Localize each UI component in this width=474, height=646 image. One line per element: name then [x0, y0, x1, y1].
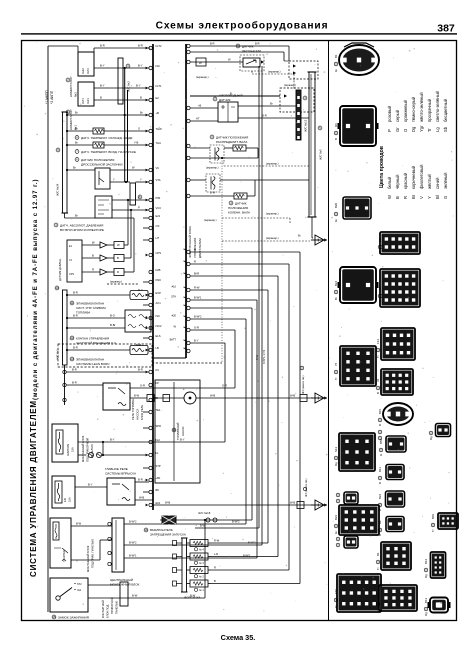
svg-text:EVP: EVP [156, 291, 162, 295]
lean burn solenoid dashed box [58, 344, 152, 367]
svg-text:№ 3: № 3 [199, 562, 204, 565]
svg-text:B-R: B-R [73, 346, 78, 350]
svg-text:Ж/С №13: Ж/С №13 [304, 119, 308, 132]
camshaft position sensor label [210, 135, 214, 139]
svg-text:B2: B2 [378, 238, 382, 242]
lean burn label [70, 357, 74, 361]
ECU V2 left pin circles [186, 44, 190, 197]
svg-text:O: O [403, 128, 408, 132]
svg-text:B1: B1 [334, 54, 338, 58]
crankshaft sensor pickup coil [206, 174, 220, 192]
connector B B22 small [386, 491, 405, 507]
svg-text:синий: синий [435, 177, 440, 189]
svg-text:B-R: B-R [100, 44, 105, 48]
svg-text:W-B: W-B [290, 501, 295, 505]
svg-text:ДАТЧИК: ДАТЧИК [242, 45, 254, 49]
wire Bl-R relay to pump connector [130, 397, 147, 399]
svg-text:EFI: EFI [63, 498, 67, 502]
svg-text:ДАТЧИК ПОЛОЖЕНИЯ: ДАТЧИК ПОЛОЖЕНИЯ [81, 158, 114, 162]
wire from bar to MAP [64, 213, 66, 218]
svg-text:STP: STP [156, 464, 161, 468]
svg-text:МОНТАЖНЫЙ БЛОК: МОНТАЖНЫЙ БЛОК [81, 435, 85, 462]
svg-text:ТОПЛИВНЫЙ: ТОПЛИВНЫЙ [176, 423, 180, 440]
svg-text:B13: B13 [424, 597, 428, 603]
svg-text:Dg: Dg [424, 612, 428, 616]
J/C No5 label [318, 126, 322, 130]
connector Tr B01 [438, 513, 458, 529]
svg-text:Gr: Gr [334, 605, 338, 608]
svg-text:CPS: CPS [156, 251, 162, 255]
junction connector J/C No5 [309, 72, 315, 217]
ECU connector bus V2 [185, 44, 187, 358]
camshaft sensor pickup coil [210, 145, 224, 163]
svg-text:Tr: Tr [431, 529, 435, 532]
svg-text:КОНТАКТНЫЙ: КОНТАКТНЫЙ [101, 600, 105, 618]
ignition lock label [52, 615, 56, 619]
wire G-R from relay up to ECU column [130, 387, 235, 389]
staircase wire B [190, 251, 300, 253]
connector Tr F48 [379, 585, 417, 611]
connector Dg D23 [436, 424, 451, 437]
connector B B11 [386, 465, 404, 480]
svg-text:№ 2: № 2 [199, 575, 204, 578]
crankshaft sensor label [229, 201, 233, 205]
svg-text:Dg: Dg [334, 462, 338, 466]
svg-text:BK: BK [156, 488, 160, 492]
ECU V1 pin circles [149, 46, 153, 506]
svg-text:B-Y: B-Y [180, 438, 185, 442]
svg-text:Bl-R: Bl-R [194, 272, 199, 276]
svg-text:ТОПЛИВА: ТОПЛИВА [76, 311, 90, 315]
svg-text:E1: E1 [69, 245, 73, 248]
svg-text:B-W: B-W [210, 191, 216, 195]
svg-text:W: W [228, 58, 231, 62]
svg-text:(экранир.): (экранир.) [196, 75, 209, 79]
svg-text:Tr: Tr [378, 251, 382, 254]
svg-text:B-W: B-W [256, 355, 259, 361]
svg-text:B: B [376, 392, 380, 394]
pressure sensor wires with diodes [82, 241, 134, 276]
svg-text:(экранир.): (экранир.) [268, 70, 281, 74]
svg-text:BATT: BATT [170, 338, 177, 342]
connector B B2x [386, 517, 404, 532]
svg-text:РАСПРЕДЕЛИТ. ВАЛА: РАСПРЕДЕЛИТ. ВАЛА [216, 140, 247, 144]
svg-text:IGT2: IGT2 [86, 68, 90, 74]
svg-text:белый: белый [387, 176, 392, 189]
svg-text:387: 387 [437, 23, 455, 35]
svg-text:E2: E2 [156, 96, 160, 100]
svg-text:G: G [379, 453, 383, 456]
svg-text:Lg: Lg [435, 127, 440, 132]
shield dashed separator [152, 362, 222, 364]
connector Dg B12 [431, 552, 446, 578]
wire arrowheads at V1 pins [146, 47, 149, 507]
ECU V2 right pin circles [184, 249, 191, 353]
fuel pump relay box [103, 383, 130, 410]
svg-text:G-R: G-R [140, 384, 145, 388]
svg-text:РЕЛЕ ТОПЛИВН.: РЕЛЕ ТОПЛИВН. [131, 398, 135, 420]
svg-text:Sb: Sb [443, 126, 448, 132]
svg-text:Br: Br [75, 127, 78, 131]
svg-text:Ж/С (шасси №1): Ж/С (шасси №1) [302, 375, 305, 394]
svg-text:B: B [100, 96, 102, 100]
svg-text:F2B: F2B [156, 268, 161, 272]
distributor dashed box [280, 88, 314, 112]
svg-text:ВО ВПУСКНОМ КОЛЛЕКТОРЕ: ВО ВПУСКНОМ КОЛЛЕКТОРЕ [60, 228, 104, 232]
connector pair marks G B19 [336, 536, 358, 548]
fuel pump [153, 397, 184, 399]
ignition lock box [50, 578, 88, 612]
svg-text:D6: D6 [334, 123, 338, 127]
injector left stubs [173, 541, 183, 587]
svg-text:МОНТАЖНЫЙ БЛОК: МОНТАЖНЫЙ БЛОК [110, 583, 140, 587]
svg-text:B-W: B-W [134, 394, 140, 398]
svg-text:ЭП/НЕВМОКЛАПАН: ЭП/НЕВМОКЛАПАН [76, 302, 104, 306]
svg-text:HT: HT [156, 236, 160, 240]
svg-text:БЛОК РЕЛЕ: БЛОК РЕЛЕ [140, 405, 144, 420]
svg-text:IGNITION: IGNITION [66, 444, 70, 456]
svg-text:P: P [138, 206, 140, 210]
svg-text:(экранир.): (экранир.) [206, 166, 219, 170]
svg-text:Y: Y [138, 196, 140, 200]
ISC valve wires [67, 317, 125, 319]
svg-text:ST2: ST2 [77, 583, 82, 586]
crankshaft loop resistor [234, 193, 247, 199]
central junction block bar [112, 518, 124, 572]
wire B-R igniter2 to IGT2 [94, 47, 150, 49]
svg-text:СИСТЕМА УПРАВЛЕНИЯ ДВИГАТЕЛЕМ: СИСТЕМА УПРАВЛЕНИЯ ДВИГАТЕЛЕМ [29, 400, 38, 577]
svg-text:B: B [140, 96, 142, 100]
inhibitor switch [162, 516, 176, 524]
svg-text:НАСОС: НАСОС [181, 426, 185, 436]
svg-text:серый: серый [395, 109, 400, 122]
svg-text:Gr: Gr [395, 127, 400, 132]
svg-text:IG2: IG2 [77, 589, 82, 592]
svg-text:ЗАМОК ЗАЖИГАНИЯ: ЗАМОК ЗАЖИГАНИЯ [58, 616, 89, 620]
wire Br to +B [67, 114, 149, 116]
svg-text:B-O: B-O [110, 314, 115, 318]
svg-text:B1: B1 [376, 552, 380, 556]
svg-text:STARTER: STARTER [62, 550, 66, 562]
connector pair marks G B02 [336, 492, 358, 504]
wire B igniter1 to E2 [94, 99, 149, 101]
ignition fuse box [52, 424, 78, 462]
svg-text:W: W [387, 195, 392, 199]
svg-text:W: W [199, 61, 202, 65]
svg-text:-: - [196, 387, 197, 391]
svg-text:бесцветный: бесцветный [443, 98, 448, 122]
svg-text:B11: B11 [378, 467, 382, 472]
camshaft loop resistor [224, 147, 233, 149]
shield dashed left [107, 283, 138, 285]
svg-text:B-W*1: B-W*1 [129, 554, 137, 558]
svg-text:E01: E01 [156, 501, 161, 505]
svg-text:+B1: +B1 [156, 476, 161, 480]
svg-text:Ж/С №5: Ж/С №5 [319, 149, 323, 160]
svg-text:B-W: B-W [200, 524, 206, 528]
svg-text:красный: красный [403, 172, 408, 189]
svg-text:E21: E21 [156, 214, 161, 218]
wire B-W inhibitor [195, 527, 259, 529]
wire EFI fuse to relay [75, 486, 107, 488]
svg-text:жёлто-зелёный: жёлто-зелёный [419, 92, 424, 122]
svg-text:B12: B12 [424, 558, 428, 564]
knock sensor label [236, 44, 240, 48]
connector Tr B2 [380, 232, 420, 254]
svg-text:STA: STA [171, 295, 176, 299]
svg-text:IG2: IG2 [156, 438, 161, 442]
harness column B-W pair [258, 66, 260, 528]
wires to ignition coil [190, 45, 289, 47]
svg-text:НАСОСА: НАСОСА [136, 408, 140, 420]
svg-text:(экранир.): (экранир.) [266, 162, 279, 166]
svg-text:B-R: B-R [72, 381, 77, 385]
MAP sensor box [95, 196, 112, 218]
svg-text:R: R [117, 270, 119, 274]
J/C No13 label [303, 96, 307, 100]
J/C No18 junction [206, 518, 210, 522]
intake air temp sensor label [75, 150, 79, 154]
svg-text:IGF1: IGF1 [86, 98, 90, 104]
svg-text:Br: Br [298, 234, 301, 238]
svg-text:Y: Y [427, 196, 432, 199]
short wire stubs at V1 spare pins [143, 218, 149, 492]
J/C No3 label [126, 64, 130, 68]
svg-text:ДАТЧ. АБСОЛЮТ. ДАВЛЕНИЯ: ДАТЧ. АБСОЛЮТ. ДАВЛЕНИЯ [60, 224, 103, 228]
svg-text:Br: Br [75, 141, 78, 145]
svg-text:B: B [378, 534, 382, 536]
svg-text:Br: Br [334, 297, 338, 300]
svg-text:CPS: CPS [69, 273, 74, 276]
chassis ground 3 [315, 500, 324, 510]
svg-text:15A: 15A [71, 447, 75, 452]
svg-text:Tr: Tr [376, 608, 380, 611]
svg-text:VC: VC [156, 166, 160, 170]
svg-text:Br: Br [73, 166, 76, 170]
oxygen sensor wires [190, 107, 218, 109]
starter relay box [50, 518, 71, 568]
svg-text:TE1: TE1 [156, 408, 161, 412]
svg-text:R: R [92, 268, 94, 272]
svg-text:розовый: розовый [387, 105, 392, 122]
svg-text:G: G [138, 127, 140, 131]
knock sensor [243, 58, 260, 67]
staircase wire Bl-R [190, 275, 278, 277]
svg-text:B-R: B-R [262, 114, 267, 118]
svg-text:ELS: ELS [156, 334, 161, 338]
svg-text:B-R: B-R [73, 314, 78, 318]
svg-text:Br: Br [75, 214, 78, 218]
wire ST2 [88, 584, 120, 586]
svg-text:#10: #10 [172, 285, 177, 289]
long ground wire W-B row [153, 504, 313, 506]
svg-text:B-W: B-W [132, 594, 138, 598]
svg-text:ДАТЧИК: ДАТЧИК [219, 98, 231, 102]
svg-text:R-W: R-W [214, 538, 220, 542]
svg-text:фиолетовый: фиолетовый [419, 164, 424, 189]
svg-text:Bl: Bl [435, 195, 440, 199]
svg-text:зелёный: зелёный [443, 172, 448, 189]
igniter box 1 [78, 82, 94, 106]
svg-text:B-R: B-R [138, 478, 143, 482]
svg-text:Ж/С (шасси №1): Ж/С (шасси №1) [305, 478, 308, 497]
svg-text:ДАТЧ. ТЕМПЕРАТ. ВОЗД. НА ВПУСК: ДАТЧ. ТЕМПЕРАТ. ВОЗД. НА ВПУСКЕ [81, 150, 136, 154]
svg-text:B24: B24 [334, 280, 338, 286]
svg-text:оранжевый: оранжевый [403, 99, 408, 122]
svg-text:КЛАПАН УПРАВЛЕНИЯ: КЛАПАН УПРАВЛЕНИЯ [76, 337, 109, 341]
feed wire top [48, 45, 78, 47]
svg-text:B: B [395, 196, 400, 199]
svg-text:36: 36 [376, 378, 380, 382]
connector B D6 [340, 106, 376, 146]
svg-text:B: B [214, 579, 216, 583]
svg-text:B-R: B-R [73, 291, 78, 295]
svg-text:R: R [214, 565, 216, 569]
svg-text:IGF: IGF [156, 64, 161, 68]
svg-text:(экранир.): (экранир.) [284, 83, 296, 87]
svg-text:Dg: Dg [411, 126, 416, 132]
svg-text:+: + [183, 387, 185, 391]
wire from ignition fuse with inline fuses [78, 441, 103, 443]
svg-text:ISC2: ISC2 [156, 324, 162, 328]
svg-text:S13: S13 [334, 446, 338, 452]
svg-text:G-R: G-R [222, 384, 227, 388]
svg-text:СИСТ. УПР. СЛИВОМ: СИСТ. УПР. СЛИВОМ [76, 306, 106, 310]
svg-text:#20: #20 [172, 314, 177, 318]
svg-text:R: R [403, 196, 408, 199]
svg-text:B-Y: B-Y [100, 64, 105, 68]
svg-text:F14: F14 [376, 339, 380, 344]
svg-text:B7: B7 [378, 286, 382, 290]
svg-text:ДАТЧИК ПОЛОЖЕНИЯ: ДАТЧИК ПОЛОЖЕНИЯ [216, 136, 248, 140]
svg-text:Gr: Gr [334, 219, 338, 222]
svg-text:SPD: SPD [156, 424, 162, 428]
svg-text:Цвета проводов: Цвета проводов [379, 146, 385, 188]
fuel pump relay feed wires [66, 371, 149, 373]
svg-text:B-Br: B-Br [110, 323, 115, 327]
junction connector bar at TPS [130, 183, 136, 205]
connector B B7 [380, 269, 420, 307]
svg-text:B22: B22 [334, 514, 338, 520]
wire W-B relay to ground row [135, 499, 153, 501]
svg-text:Ygr: Ygr [419, 125, 424, 132]
intake air temp sensor [67, 144, 93, 146]
svg-text:ДРОССЕЛЬНОЙ ЗАСЛОНКИ: ДРОССЕЛЬНОЙ ЗАСЛОНКИ [81, 163, 123, 167]
contact block bar [120, 582, 128, 606]
svg-text:R: R [194, 260, 196, 264]
svg-text:G-R: G-R [194, 326, 199, 330]
wires B-W from central block [124, 523, 246, 525]
injector feed bar [182, 538, 187, 592]
svg-text:IGF2: IGF2 [81, 68, 85, 74]
throttle position sensor label [75, 158, 79, 162]
wire B-Y igniter2 to IGF [94, 67, 149, 69]
svg-text:Br: Br [411, 194, 416, 199]
EFI main relay box [107, 478, 135, 505]
svg-text:Ж/С №18: Ж/С №18 [198, 511, 211, 515]
svg-text:IG: IG [156, 451, 159, 455]
connector Tr F14 [381, 328, 415, 360]
junction connector J/C No13 [296, 90, 301, 140]
svg-text:IGT1: IGT1 [81, 98, 85, 104]
svg-text:FC: FC [156, 368, 160, 372]
svg-text:15A: 15A [68, 497, 72, 502]
svg-text:W-B: W-B [290, 393, 295, 397]
svg-text:ПОЛОЖЕНИЯ: ПОЛОЖЕНИЯ [228, 206, 248, 210]
svg-text:№ 1: № 1 [199, 589, 204, 592]
svg-text:(модели с двигателями 4А-FE и: (модели с двигателями 4А-FE и 7А-FE выпу… [33, 179, 39, 401]
svg-text:ISC: ISC [156, 314, 161, 318]
svg-text:B: B [117, 256, 119, 260]
ECU bottom edge [153, 357, 186, 359]
svg-text:W: W [132, 166, 135, 170]
svg-text:(экранир.): (экранир.) [266, 212, 279, 216]
svg-text:W-B: W-B [165, 501, 170, 505]
svg-text:ВЫКЛЮЧАТЕЛЬ: ВЫКЛЮЧАТЕЛЬ [150, 528, 173, 532]
page header rule [21, 33, 457, 34]
svg-text:ДЕТОНАЦИИ: ДЕТОНАЦИИ [242, 49, 261, 53]
svg-text:B-R: B-R [138, 44, 143, 48]
oxygen sensor box [218, 102, 238, 122]
svg-text:B20: B20 [334, 202, 338, 208]
junction connector J/C No34 bar [63, 112, 68, 213]
svg-text:прозрачный: прозрачный [427, 98, 432, 122]
svg-text:Ж/С №34: Ж/С №34 [56, 183, 60, 196]
pressure sensor box [67, 240, 82, 282]
svg-text:+B: +B [156, 111, 160, 115]
svg-text:B-R: B-R [72, 368, 77, 372]
svg-text:(экранир.): (экранир.) [266, 236, 279, 240]
svg-text:B-W*1, R-T2: B-W*1, R-T2 [263, 349, 266, 364]
svg-text:Gr: Gr [334, 531, 338, 534]
wire VTA from TPS [110, 181, 130, 183]
svg-text:B: B [92, 254, 94, 258]
svg-text:B: B [334, 138, 338, 140]
svg-text:THA: THA [156, 141, 162, 145]
svg-text:B-R: B-R [210, 42, 215, 46]
svg-text:*2 АКПП: *2 АКПП [50, 90, 54, 104]
svg-text:B56: B56 [379, 438, 383, 444]
svg-text:ДАТЧИК: ДАТЧИК [235, 202, 247, 206]
svg-text:ЗАПРЕЩЕНИЯ ЗАПУСКА: ЗАПРЕЩЕНИЯ ЗАПУСКА [150, 533, 186, 537]
connector Tr B1 grid [381, 542, 411, 570]
svg-text:Y-B: Y-B [134, 141, 138, 145]
svg-text:HT: HT [196, 117, 200, 121]
wire W-B pump to chassis ground [196, 397, 313, 399]
svg-text:V1: V1 [69, 259, 73, 262]
svg-text:Схемы электрооборудования: Схемы электрооборудования [156, 20, 329, 32]
svg-text:Dg: Dg [424, 574, 428, 578]
svg-text:W: W [174, 325, 177, 329]
svg-text:B-Y: B-Y [100, 84, 105, 88]
svg-text:Y: Y [113, 178, 115, 182]
svg-text:B-R: B-R [255, 42, 260, 46]
svg-text:IGT2: IGT2 [156, 44, 162, 48]
junction bar left mid [63, 290, 68, 365]
connector Gr B22 [339, 505, 379, 535]
staircase wire G-R [190, 329, 235, 331]
connector B B15 [383, 403, 413, 425]
svg-text:+B: +B [198, 104, 202, 108]
svg-text:Ж/С №1: Ж/С №1 [56, 349, 60, 360]
svg-text:Tr: Tr [376, 355, 380, 358]
svg-text:VCC: VCC [156, 206, 162, 210]
svg-text:Dg: Dg [429, 436, 433, 440]
svg-text:VTA: VTA [156, 178, 161, 182]
wires starter to central block [71, 525, 112, 527]
ISC valve label [70, 336, 74, 340]
wire VC from TPS [110, 169, 149, 171]
